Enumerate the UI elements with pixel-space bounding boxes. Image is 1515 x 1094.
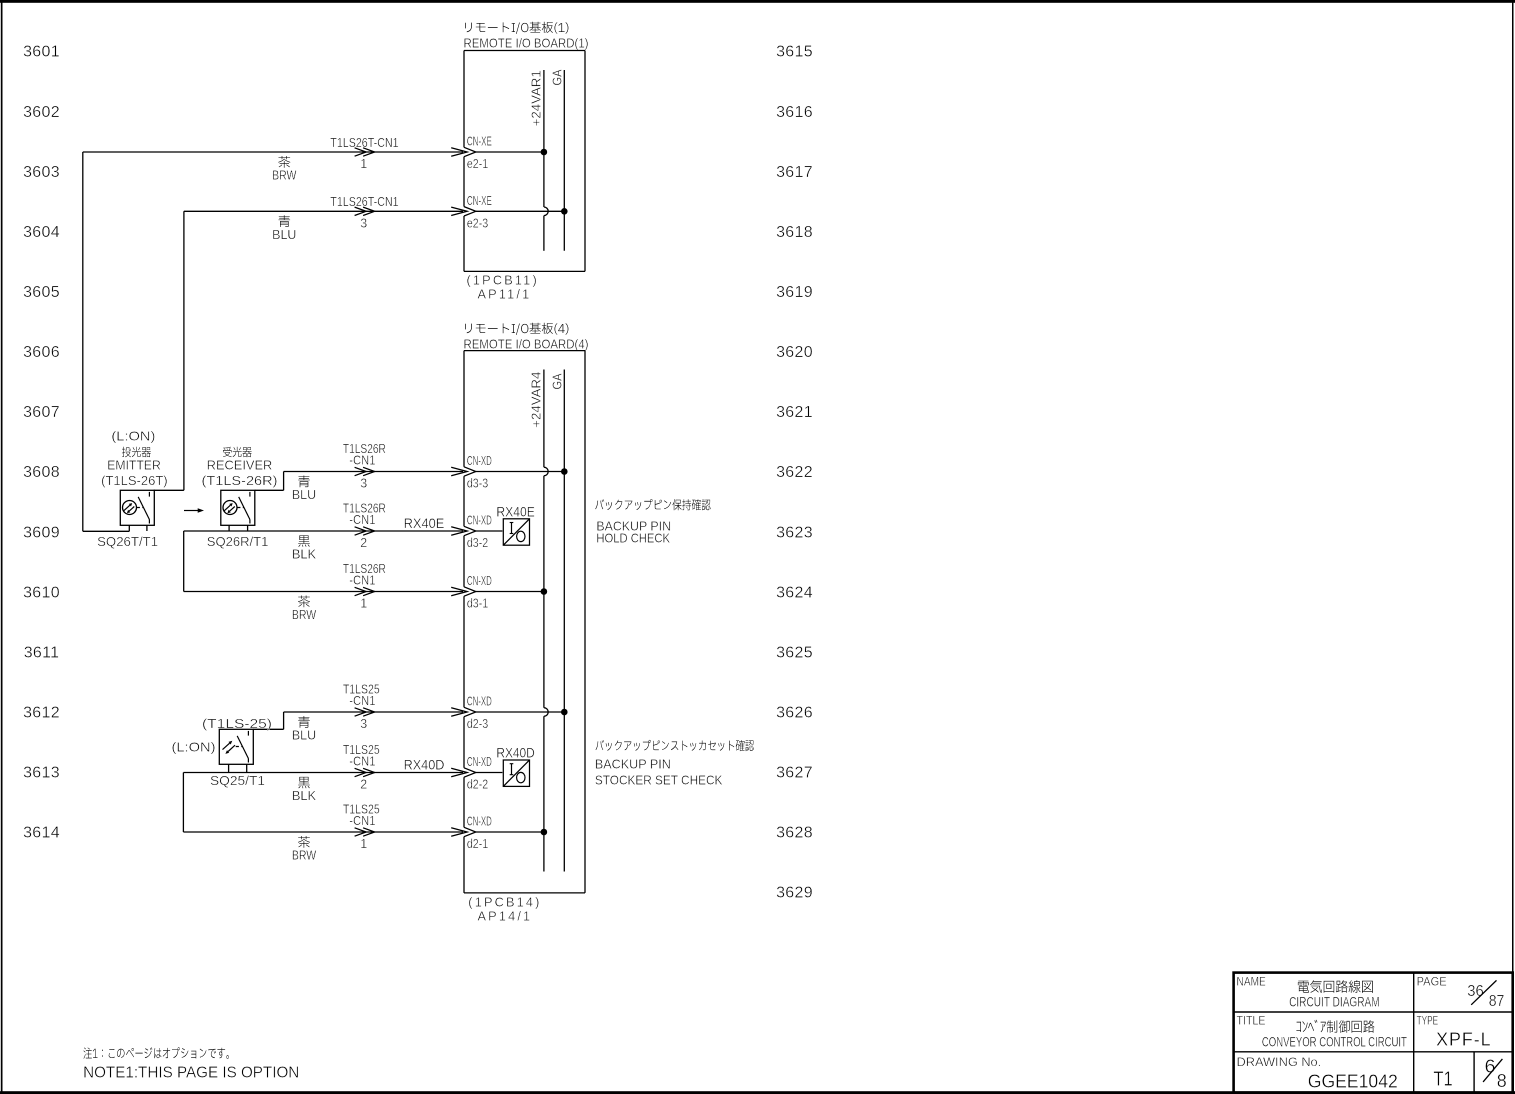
svg-text:BLU: BLU [272,228,296,242]
svg-text:+24VAR1: +24VAR1 [529,70,544,126]
svg-text:2: 2 [360,536,367,550]
svg-text:e2-3: e2-3 [467,216,488,230]
SQ25 top wire to d2-3 [253,728,283,730]
wire arrow T1LS25-CN1 pin3 [355,708,367,716]
svg-text:BLK: BLK [292,789,317,803]
svg-text:3: 3 [360,216,367,230]
svg-text:3605: 3605 [23,284,60,301]
svg-text:CN-XE: CN-XE [467,194,492,208]
I/O port RX40D [503,760,529,786]
svg-text:-CN1: -CN1 [349,573,375,587]
wire 3603 BRW to e2-1 (horizontal) [83,151,463,153]
svg-text:AP11/1: AP11/1 [478,288,532,302]
remote I/O board (1) box U-PCB11 [464,51,585,272]
svg-text:3615: 3615 [776,44,813,61]
svg-text:1: 1 [360,157,367,171]
svg-text:3: 3 [360,717,367,731]
wire d3-2 inside board to RX40E [476,530,503,532]
title block frame [1234,973,1513,1093]
hop: +24VAR4 over d3-3 wire [544,467,548,476]
I/O port RX40E [503,519,529,545]
svg-text:(1PCB14): (1PCB14) [468,896,541,910]
check note JP: backup pin stocker set check [596,740,754,751]
connector entry d2-3 [451,708,467,716]
svg-text:(T1LS-26T): (T1LS-26T) [101,474,168,488]
emitter bottom-left lead [128,525,130,531]
junction dot e2-1 / +24VAR1 [541,149,548,156]
board (1) left edge with connector notches [463,51,465,148]
photo sensor emitter SQ26T/T1 (T1LS-26T) [120,490,154,525]
wire d3-3 inside board to GA [476,471,565,473]
SQ25 bottom-left lead [228,764,230,772]
junction dot d2-1 / +24VAR4 [541,829,548,836]
svg-text:3608: 3608 [23,464,60,481]
svg-text:T1: T1 [1433,1068,1452,1091]
svg-text:3622: 3622 [776,464,813,481]
wire 3603 vertical drop to emitter [82,152,84,531]
svg-text:T1LS26T-CN1: T1LS26T-CN1 [330,136,398,150]
photo sensor receiver SQ26R/T1 (T1LS-26R) [221,490,255,525]
svg-text:3607: 3607 [23,404,60,421]
wire arrow T1LS25-CN1 pin1 [355,828,367,836]
connector entry d2-1 [451,828,467,836]
wire 3610 BRW to d3-1 [184,591,463,593]
svg-text:BACKUP PIN: BACKUP PIN [595,757,671,771]
hop: +24VAR4 over d2-3 wire [544,708,548,717]
hop: +24VAR1 over e2-3 wire [544,207,548,216]
svg-text:2: 2 [360,778,367,792]
wire 3612 BLU SQ25 to d2-3 [284,711,463,713]
wire e2-1 inside board to +24VAR1 [476,151,544,153]
svg-text:3611: 3611 [24,644,60,661]
svg-text:3616: 3616 [776,104,813,121]
label receiver JP 受光器 [223,447,252,457]
junction dot d3-1 / +24VAR4 [541,588,548,595]
svg-text:REMOTE I/O BOARD(1): REMOTE I/O BOARD(1) [464,37,589,51]
svg-text:RX40E: RX40E [404,516,445,531]
svg-text:-CN1: -CN1 [349,814,375,828]
svg-text:NOTE1:THIS PAGE IS OPTION: NOTE1:THIS PAGE IS OPTION [83,1065,299,1082]
svg-text:HOLD CHECK: HOLD CHECK [596,531,670,545]
svg-text:+24VAR4: +24VAR4 [529,372,544,428]
svg-text:SQ26T/T1: SQ26T/T1 [97,535,158,549]
svg-text:-CN1: -CN1 [349,453,375,467]
svg-text:d2-1: d2-1 [467,837,488,851]
svg-text:3602: 3602 [23,104,60,121]
svg-text:CN-XD: CN-XD [467,574,492,588]
receiver bottom-left lead [228,525,230,531]
check note JP: backup pin hold check [595,499,710,510]
svg-text:-CN1: -CN1 [349,694,375,708]
svg-text:GA: GA [549,373,564,389]
net GA bus line (board 1) [563,70,565,251]
svg-text:3621: 3621 [776,404,813,421]
svg-text:3628: 3628 [776,825,813,842]
svg-text:RX40D: RX40D [404,757,445,772]
svg-text:3614: 3614 [23,825,60,842]
wire e2-3 inside board to GA [476,210,565,212]
wire arrow T1LS26R-CN1 pin2 [355,527,367,535]
connector entry d3-2 [451,527,467,535]
wire 3613 BLK SQ25 to d2-2 [183,772,463,774]
wire arrow T1LS26R-CN1 pin1 [355,587,367,595]
svg-text:3603: 3603 [23,164,60,181]
svg-text:BRW: BRW [292,849,316,863]
connector entry d3-1 [451,587,467,595]
svg-text:SQ26R/T1: SQ26R/T1 [207,535,269,549]
wire d2-2 inside board to RX40D [476,772,503,774]
title block sub divider row3 [1473,1052,1475,1093]
label emitter JP 投光器 [122,447,151,458]
svg-text:CIRCUIT DIAGRAM: CIRCUIT DIAGRAM [1289,995,1380,1010]
net +24VAR4 bus line [543,370,545,468]
title block row divider 1 [1234,1011,1513,1013]
svg-text:TYPE: TYPE [1417,1013,1439,1027]
connector entry e2-1 [451,148,467,156]
wire 3604 BLU to e2-3 (horizontal) [184,210,463,212]
photo sensor SQ25/T1 (T1LS-25) [219,729,253,764]
svg-text:3612: 3612 [23,705,60,722]
svg-text:REMOTE I/O BOARD(4): REMOTE I/O BOARD(4) [464,338,589,352]
svg-text:-CN1: -CN1 [349,513,375,527]
svg-text:XPF-L: XPF-L [1436,1029,1492,1050]
svg-text:e2-1: e2-1 [467,157,488,171]
svg-text:PAGE: PAGE [1417,974,1447,988]
title JP conveyor control circuit [1296,1020,1374,1033]
svg-text:BRW: BRW [272,169,296,183]
connector entry d3-3 [451,467,467,475]
svg-text:AP14/1: AP14/1 [478,910,533,924]
svg-text:RX40D: RX40D [496,746,535,761]
svg-text:(L:ON): (L:ON) [172,741,216,755]
wire arrow T1LS26T-CN1 pin3 [355,207,367,215]
svg-text:3617: 3617 [776,164,813,181]
wire arrow T1LS26R-CN1 pin3 [355,467,367,475]
wire 3609 BLK receiver to d3-2 [184,530,463,532]
svg-text:3625: 3625 [776,644,813,661]
receiver top wire to d3-3 [255,489,284,491]
wire arrow T1LS26T-CN1 pin1 [355,148,367,156]
svg-text:(T1LS-25): (T1LS-25) [202,717,272,731]
svg-text:NAME: NAME [1237,974,1266,988]
wire d2-3 inside board to GA [476,711,565,713]
net GA bus line (board 4) [563,370,565,872]
svg-text:CN-XD: CN-XD [467,514,492,528]
svg-text:3: 3 [360,477,367,491]
svg-text:CN-XE: CN-XE [467,135,492,149]
svg-text:CN-XD: CN-XD [467,755,492,769]
wire 3604 vertical drop to emitter top [183,211,185,490]
svg-text:T1LS26T-CN1: T1LS26T-CN1 [330,195,398,209]
wire 3608 BLU receiver to d3-3 [284,471,463,473]
vertical link BLK wire down to BRW wire (SQ25) [182,773,184,833]
board (4) left edge with connector notches [463,351,465,467]
svg-text:3619: 3619 [776,284,813,301]
svg-text:CN-XD: CN-XD [467,454,492,468]
net +24VAR1 bus line [543,70,545,207]
svg-text:3629: 3629 [776,885,813,902]
svg-text:3627: 3627 [776,765,813,782]
svg-text:3604: 3604 [23,224,60,241]
SQ25 top wire vertical [283,712,285,729]
svg-text:CONVEYOR CONTROL CIRCUIT: CONVEYOR CONTROL CIRCUIT [1262,1035,1407,1050]
vertical link BLK wire down to BRW wire [183,531,185,592]
svg-text:3601: 3601 [23,44,60,61]
svg-text:3623: 3623 [776,524,813,541]
emitter bottom-right lead (open) [146,525,148,531]
svg-text:(T1LS-26R): (T1LS-26R) [202,474,278,488]
svg-text:d3-3: d3-3 [467,477,488,491]
svg-text:3609: 3609 [23,524,60,541]
svg-text:BLU: BLU [292,729,316,743]
svg-text:3620: 3620 [776,344,813,361]
svg-text:8: 8 [1497,1071,1507,1091]
svg-text:-CN1: -CN1 [349,754,375,768]
optical beam arrow between emitter and receiver [184,508,204,512]
svg-text:3613: 3613 [23,765,60,782]
svg-text:1: 1 [360,837,367,851]
svg-text:d3-2: d3-2 [467,536,488,550]
svg-text:(1PCB11): (1PCB11) [467,274,539,288]
svg-text:(L:ON): (L:ON) [111,430,155,444]
svg-text:CN-XD: CN-XD [467,815,492,829]
svg-text:1: 1 [360,597,367,611]
svg-text:36: 36 [1467,983,1484,1000]
junction dot d3-3 / GA [561,468,568,475]
junction dot e2-3 / GA [561,208,568,215]
SQ25 bottom-right lead [246,764,248,772]
wire d3-1 inside board to +24VAR4 [476,591,544,593]
junction dot d2-3 / GA [561,709,568,716]
svg-text:EMITTER: EMITTER [107,459,161,473]
svg-text:d2-2: d2-2 [467,778,488,792]
title block column divider [1413,973,1415,1093]
svg-text:87: 87 [1489,993,1505,1010]
receiver bottom-right lead [247,525,249,531]
sheet slash [1483,1059,1502,1082]
svg-text:3606: 3606 [23,344,60,361]
svg-text:DRAWING No.: DRAWING No. [1237,1055,1322,1069]
svg-text:BLU: BLU [292,488,316,502]
svg-text:CN-XD: CN-XD [467,695,492,709]
wire 3614 BRW to d2-1 [183,831,463,833]
svg-text:GGEE1042: GGEE1042 [1308,1071,1398,1092]
page slash [1471,980,1496,1004]
svg-text:GA: GA [549,69,564,85]
name JP 電気回路線図 [1298,980,1373,993]
note 1 JP [84,1047,229,1059]
svg-text:3618: 3618 [776,224,813,241]
svg-text:BRW: BRW [292,608,316,622]
svg-text:d2-3: d2-3 [467,717,488,731]
remote I/O board (4) title JP [465,323,568,335]
wire to emitter bottom lead [83,530,130,532]
connector entry d2-2 [451,768,467,776]
svg-text:STOCKER SET CHECK: STOCKER SET CHECK [595,773,723,787]
svg-text:3626: 3626 [776,705,813,722]
svg-text:d3-1: d3-1 [467,597,488,611]
svg-text:3610: 3610 [23,584,60,601]
title block row divider 2 [1234,1051,1513,1053]
svg-text:RX40E: RX40E [496,505,534,520]
svg-text:SQ25/T1: SQ25/T1 [210,774,265,788]
svg-text:BLK: BLK [292,548,317,562]
svg-text:RECEIVER: RECEIVER [207,459,273,473]
remote I/O board (4) box U-PCB14 [464,351,585,893]
svg-text:TITLE: TITLE [1237,1013,1266,1027]
wire emitter top to 3604 drop [154,489,184,491]
remote I/O board (1) title JP [465,22,568,34]
wire arrow T1LS25-CN1 pin2 [355,768,367,776]
wire d2-1 inside board to +24VAR4 [476,831,544,833]
svg-text:3624: 3624 [776,584,813,601]
receiver top wire vertical [283,472,285,491]
connector entry e2-3 [451,207,467,215]
